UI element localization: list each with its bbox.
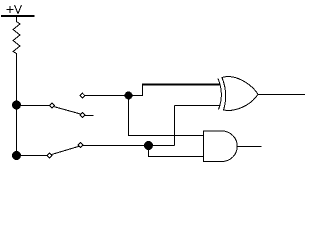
- xor gate U1 extra input arc: [218, 79, 221, 110]
- switch S2 blade-end terminal: [78, 143, 83, 148]
- label +V: [7, 5, 22, 14]
- switch S1 output terminal: [80, 93, 85, 98]
- node D: [144, 141, 153, 150]
- switch S1 blade-end terminal: [80, 113, 85, 118]
- wire node D to vertical: [149, 145, 175, 147]
- thick wire to XOR top input: [142, 84, 220, 86]
- and gate U2: [204, 131, 238, 162]
- node C: [125, 92, 133, 100]
- node A: [12, 101, 21, 110]
- xor gate U1 body: [222, 77, 258, 111]
- node B: [12, 151, 21, 160]
- wire node A to switch S1: [17, 105, 50, 107]
- wire node B to switch S2: [17, 155, 48, 157]
- resistor R1: [13, 22, 20, 54]
- wire node D down to AND bottom input: [149, 146, 204, 157]
- switch S1 terminal: [50, 103, 55, 108]
- wire resistor to node B: [16, 53, 18, 156]
- switch S1 blade stub: [85, 115, 94, 117]
- switch S2 terminal: [47, 153, 52, 158]
- wire XOR output: [258, 94, 305, 96]
- wire node C down to AND top input: [129, 96, 204, 136]
- switch S2 blade: [51, 146, 79, 154]
- wire rail to resistor: [16, 17, 18, 22]
- switch S1 blade: [54, 107, 81, 115]
- wire S1 output to node C: [85, 95, 129, 97]
- power rail bar +V: [1, 15, 35, 17]
- wire XOR bottom input down to node D: [174, 106, 176, 146]
- wire node C jog: [129, 85, 143, 96]
- wire XOR bottom input: [175, 105, 220, 107]
- wire AND output: [237, 146, 262, 148]
- wire S2 to node D: [83, 145, 149, 147]
